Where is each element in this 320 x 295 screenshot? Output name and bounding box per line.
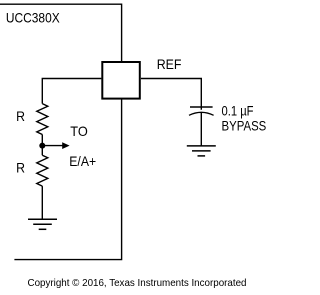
op IC block U1 xyxy=(102,62,140,99)
svg-text:R: R xyxy=(16,108,25,124)
wire REF net from IC right pin xyxy=(141,79,201,110)
svg-text:TO: TO xyxy=(70,123,88,139)
wire capacitor to ground xyxy=(200,113,202,146)
svg-text:0.1 µF: 0.1 µF xyxy=(222,103,254,119)
wire R1 bottom through node to R2 top xyxy=(41,135,43,156)
svg-text:R: R xyxy=(16,160,25,176)
wire top net into IC xyxy=(0,4,122,61)
svg-text:E/A+: E/A+ xyxy=(69,153,96,169)
ground (right) xyxy=(187,146,216,156)
svg-text:UCC380X: UCC380X xyxy=(6,10,60,26)
wire R2 bottom to ground xyxy=(41,186,43,219)
resistor R2 xyxy=(37,155,48,186)
resistor R1 xyxy=(37,104,48,135)
wire arrow to E/A+ xyxy=(42,145,63,147)
node junction dot xyxy=(39,143,45,149)
svg-text:BYPASS: BYPASS xyxy=(222,117,267,133)
svg-text:Copyright © 2016, Texas Instru: Copyright © 2016, Texas Instruments Inco… xyxy=(28,278,247,289)
wire from IC bottom pin (GND return) xyxy=(14,99,121,260)
ground (left) xyxy=(28,219,57,229)
svg-text:REF: REF xyxy=(157,56,182,72)
capacitor C bypass 0.1uF xyxy=(189,107,214,115)
wire from IC left pin to resistor divider xyxy=(42,79,101,104)
